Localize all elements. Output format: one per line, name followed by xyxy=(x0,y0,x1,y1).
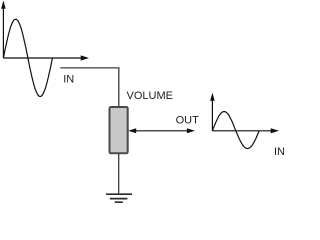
svg-text:OUT: OUT xyxy=(176,115,200,127)
output plot horizontal axis xyxy=(212,128,279,133)
input plot horizontal axis xyxy=(3,55,89,60)
wire from IN to potentiometer top xyxy=(60,68,119,106)
wiper double arrow xyxy=(128,128,195,133)
ground xyxy=(106,194,132,202)
input plot vertical axis xyxy=(1,1,6,59)
svg-text:IN: IN xyxy=(63,74,74,86)
input sine wave xyxy=(3,19,52,96)
svg-text:VOLUME: VOLUME xyxy=(127,90,173,102)
output sine wave xyxy=(212,112,259,149)
output plot vertical axis xyxy=(210,93,215,131)
potentiometer VOLUME xyxy=(110,107,128,153)
svg-text:IN: IN xyxy=(274,146,285,158)
wire from potentiometer bottom to ground xyxy=(118,154,120,193)
